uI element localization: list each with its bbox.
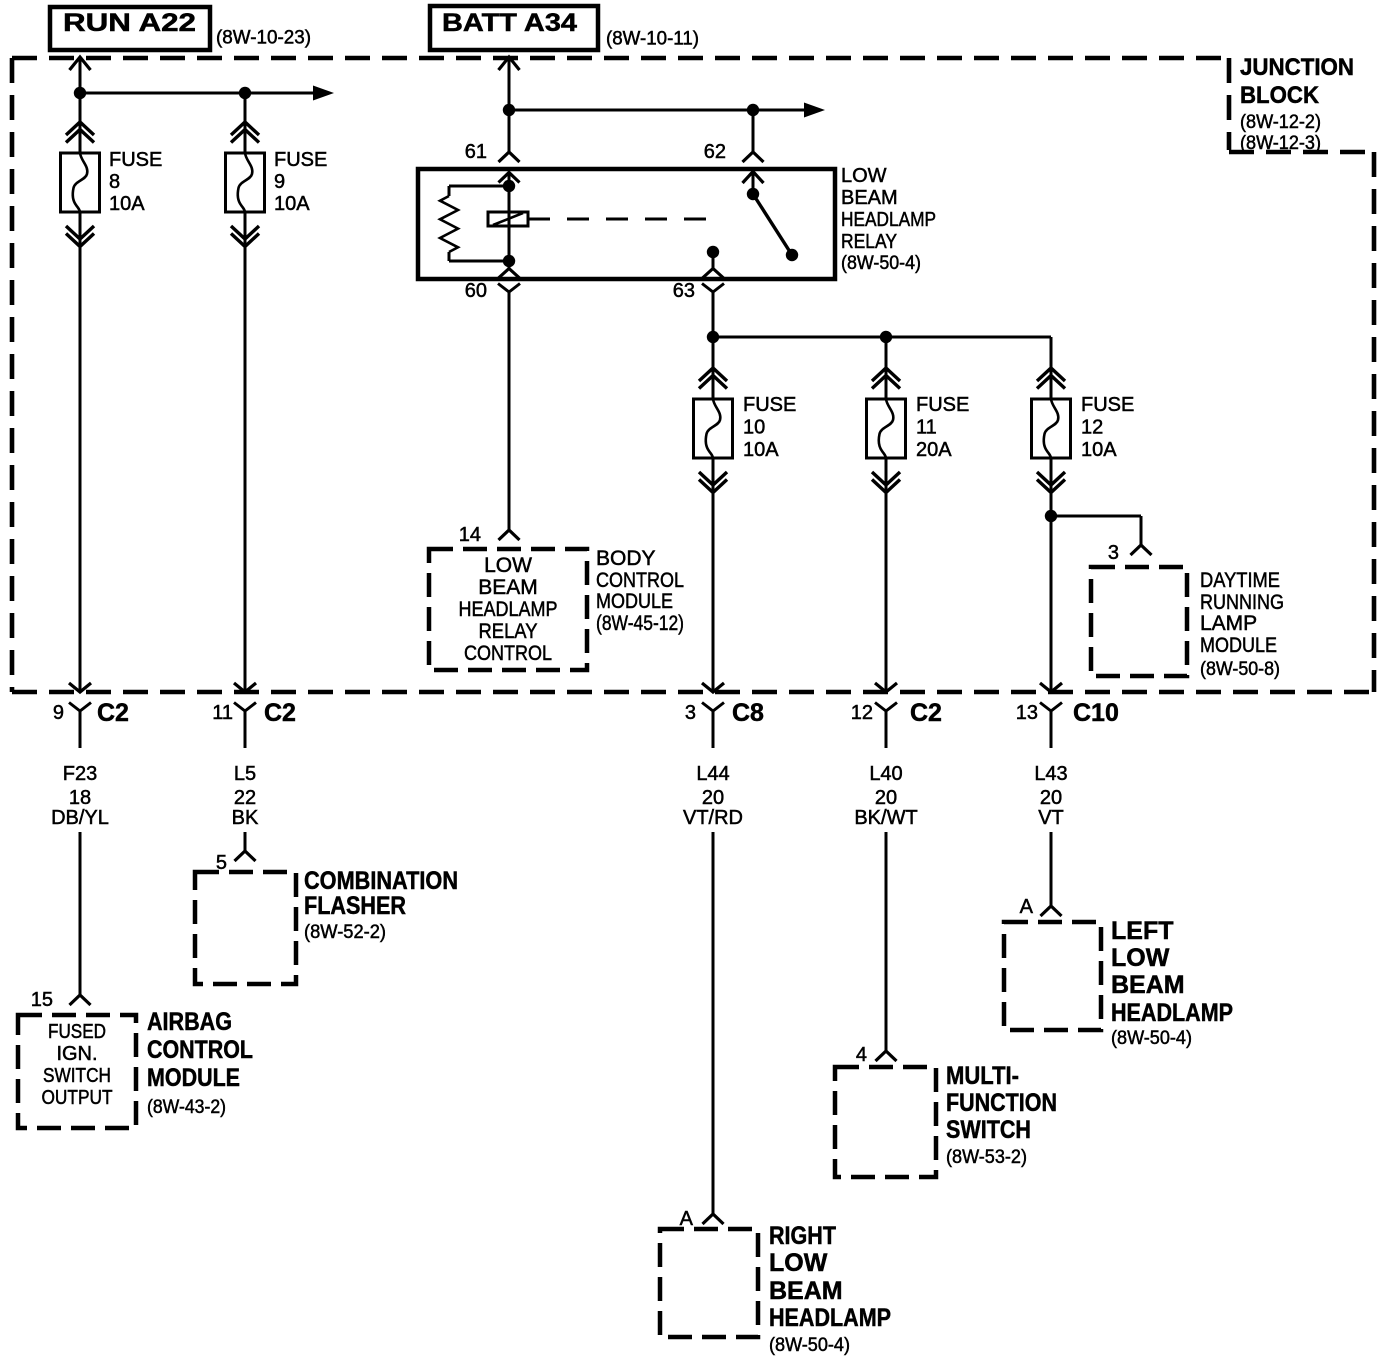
svg-text:L44: L44	[696, 763, 729, 785]
svg-text:HEADLAMP: HEADLAMP	[769, 1304, 891, 1332]
svg-text:MODULE: MODULE	[1200, 634, 1277, 657]
svg-text:RUN A22: RUN A22	[63, 9, 196, 37]
svg-text:22: 22	[234, 787, 256, 809]
svg-text:13: 13	[1016, 702, 1038, 724]
svg-text:IGN.: IGN.	[56, 1043, 97, 1065]
svg-text:10A: 10A	[109, 193, 145, 215]
svg-text:SWITCH: SWITCH	[946, 1116, 1031, 1144]
svg-text:BODY: BODY	[596, 547, 656, 570]
svg-text:3: 3	[1108, 542, 1119, 564]
svg-text:11: 11	[212, 702, 233, 724]
svg-text:(8W-10-23): (8W-10-23)	[216, 28, 311, 49]
svg-text:BEAM: BEAM	[1111, 971, 1185, 999]
svg-text:(8W-12-2): (8W-12-2)	[1240, 112, 1321, 133]
svg-text:LOW: LOW	[1111, 944, 1170, 972]
svg-text:JUNCTION: JUNCTION	[1240, 54, 1354, 81]
svg-text:(8W-52-2): (8W-52-2)	[304, 922, 386, 943]
svg-text:CONTROL: CONTROL	[464, 642, 552, 665]
svg-text:10: 10	[743, 417, 765, 439]
svg-text:62: 62	[704, 141, 726, 163]
svg-text:60: 60	[465, 280, 487, 302]
svg-text:RELAY: RELAY	[479, 620, 538, 643]
svg-text:FUSE: FUSE	[916, 394, 969, 416]
svg-text:12: 12	[851, 702, 873, 724]
svg-text:MODULE: MODULE	[147, 1064, 240, 1092]
svg-text:F23: F23	[63, 763, 97, 785]
svg-text:MODULE: MODULE	[596, 590, 673, 613]
svg-text:C8: C8	[732, 699, 764, 727]
svg-text:CONTROL: CONTROL	[596, 569, 684, 592]
svg-text:COMBINATION: COMBINATION	[304, 867, 458, 895]
svg-text:RELAY: RELAY	[841, 231, 897, 253]
svg-text:SWITCH: SWITCH	[43, 1065, 111, 1087]
svg-text:OUTPUT: OUTPUT	[42, 1087, 113, 1109]
svg-text:11: 11	[916, 417, 937, 439]
svg-text:(8W-50-4): (8W-50-4)	[769, 1335, 850, 1356]
svg-text:DAYTIME: DAYTIME	[1200, 569, 1280, 592]
svg-text:3: 3	[685, 702, 696, 724]
svg-text:LOW: LOW	[769, 1249, 828, 1277]
svg-text:MULTI-: MULTI-	[946, 1062, 1019, 1090]
svg-text:61: 61	[465, 141, 487, 163]
svg-text:L5: L5	[234, 763, 256, 785]
svg-text:HEADLAMP: HEADLAMP	[459, 598, 558, 621]
svg-text:BLOCK: BLOCK	[1240, 82, 1320, 109]
svg-text:(8W-45-12): (8W-45-12)	[596, 612, 684, 635]
svg-text:14: 14	[459, 524, 481, 546]
svg-text:C2: C2	[910, 699, 942, 727]
svg-text:20: 20	[702, 787, 724, 809]
svg-text:FUSED: FUSED	[48, 1021, 106, 1043]
svg-text:BEAM: BEAM	[769, 1277, 843, 1305]
svg-text:HEADLAMP: HEADLAMP	[1111, 999, 1233, 1027]
svg-text:L40: L40	[869, 763, 902, 785]
svg-text:C2: C2	[264, 699, 296, 727]
svg-text:BEAM: BEAM	[841, 187, 898, 209]
svg-text:(8W-50-4): (8W-50-4)	[1111, 1028, 1192, 1049]
svg-text:10A: 10A	[274, 193, 310, 215]
svg-text:LOW: LOW	[841, 165, 887, 187]
svg-text:20A: 20A	[916, 439, 952, 461]
svg-text:LOW: LOW	[484, 554, 532, 577]
svg-text:L43: L43	[1034, 763, 1067, 785]
svg-text:BK: BK	[232, 807, 259, 829]
svg-text:(8W-43-2): (8W-43-2)	[147, 1097, 226, 1118]
svg-text:9: 9	[53, 702, 64, 724]
svg-text:DB/YL: DB/YL	[51, 807, 109, 829]
svg-text:C10: C10	[1073, 699, 1119, 727]
svg-text:8: 8	[109, 171, 120, 193]
svg-text:FLASHER: FLASHER	[304, 892, 406, 920]
svg-text:RIGHT: RIGHT	[769, 1222, 836, 1250]
svg-text:RUNNING: RUNNING	[1200, 591, 1284, 614]
svg-text:LAMP: LAMP	[1200, 612, 1257, 635]
svg-text:10A: 10A	[743, 439, 779, 461]
svg-text:VT: VT	[1038, 807, 1064, 829]
svg-text:BEAM: BEAM	[478, 576, 538, 599]
svg-text:FUSE: FUSE	[109, 149, 162, 171]
svg-text:FUNCTION: FUNCTION	[946, 1089, 1057, 1117]
svg-text:FUSE: FUSE	[743, 394, 796, 416]
svg-text:20: 20	[875, 787, 897, 809]
svg-text:(8W-50-8): (8W-50-8)	[1200, 659, 1280, 680]
svg-text:LEFT: LEFT	[1111, 917, 1174, 945]
svg-text:BK/WT: BK/WT	[854, 807, 917, 829]
svg-text:BATT A34: BATT A34	[442, 9, 577, 37]
svg-text:AIRBAG: AIRBAG	[147, 1008, 232, 1036]
svg-text:A: A	[680, 1208, 694, 1230]
svg-text:A: A	[1020, 896, 1034, 918]
svg-text:15: 15	[31, 989, 53, 1011]
svg-text:9: 9	[274, 171, 285, 193]
svg-text:(8W-12-3): (8W-12-3)	[1240, 133, 1321, 154]
svg-text:4: 4	[856, 1044, 867, 1066]
svg-text:VT/RD: VT/RD	[683, 807, 743, 829]
svg-text:FUSE: FUSE	[274, 149, 327, 171]
svg-text:FUSE: FUSE	[1081, 394, 1134, 416]
svg-text:(8W-10-11): (8W-10-11)	[606, 29, 699, 50]
svg-text:10A: 10A	[1081, 439, 1117, 461]
svg-text:18: 18	[69, 787, 91, 809]
svg-text:CONTROL: CONTROL	[147, 1036, 253, 1064]
svg-text:C2: C2	[97, 699, 129, 727]
svg-text:20: 20	[1040, 787, 1062, 809]
svg-text:(8W-53-2): (8W-53-2)	[946, 1147, 1027, 1168]
svg-text:12: 12	[1081, 417, 1103, 439]
svg-text:HEADLAMP: HEADLAMP	[841, 209, 936, 231]
svg-text:63: 63	[673, 280, 695, 302]
svg-text:(8W-50-4): (8W-50-4)	[841, 253, 921, 274]
